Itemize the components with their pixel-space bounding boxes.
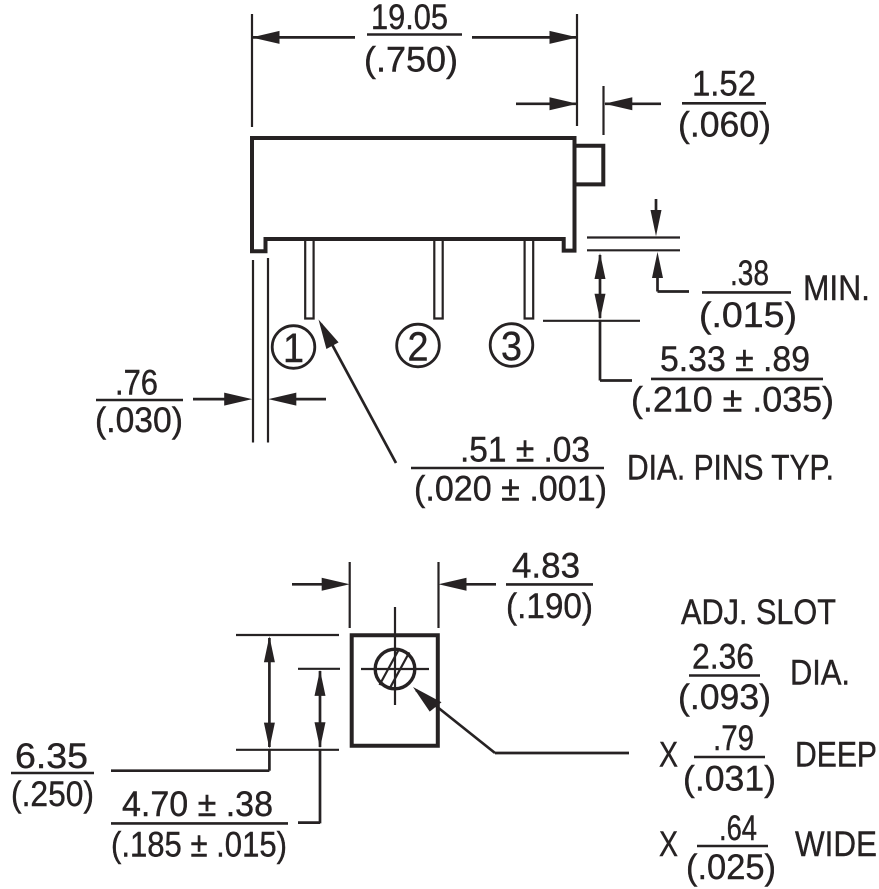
svg-text:X: X [659,736,678,775]
svg-text:(.025): (.025) [686,848,776,887]
svg-text:4.70 ± .38: 4.70 ± .38 [122,785,273,824]
svg-text:5.33 ± .89: 5.33 ± .89 [660,340,810,379]
svg-text:.76: .76 [115,364,158,403]
svg-text:6.35: 6.35 [15,737,88,776]
svg-text:ADJ. SLOT: ADJ. SLOT [681,593,836,632]
svg-text:X: X [659,825,678,864]
svg-text:.38: .38 [730,254,769,293]
svg-text:(.015): (.015) [699,296,797,335]
svg-text:2.36: 2.36 [692,638,754,677]
svg-text:(.030): (.030) [95,401,183,440]
svg-text:(.093): (.093) [678,678,771,717]
svg-text:(.031): (.031) [683,760,776,799]
svg-text:.64: .64 [719,809,757,848]
svg-text:2: 2 [408,324,429,370]
svg-text:DEEP: DEEP [795,736,877,775]
svg-text:(.750): (.750) [364,41,458,80]
svg-text:19.05: 19.05 [371,0,448,37]
svg-text:(.060): (.060) [678,106,771,145]
svg-text:(.190): (.190) [506,587,593,626]
svg-text:(.250): (.250) [11,775,94,814]
svg-text:(.020 ± .001): (.020 ± .001) [414,470,607,509]
svg-text:DIA.: DIA. [790,654,850,693]
svg-text:WIDE: WIDE [795,825,877,864]
svg-text:4.83: 4.83 [512,547,580,586]
svg-text:.51 ± .03: .51 ± .03 [460,431,590,470]
svg-text:1: 1 [283,325,304,371]
svg-text:(.185 ± .015): (.185 ± .015) [111,826,287,865]
svg-text:(.210 ± .035): (.210 ± .035) [631,381,834,420]
svg-text:.79: .79 [713,719,754,758]
svg-text:MIN.: MIN. [803,269,870,308]
svg-text:1.52: 1.52 [692,65,756,104]
svg-text:3: 3 [501,323,522,369]
svg-text:DIA. PINS TYP.: DIA. PINS TYP. [627,449,834,488]
